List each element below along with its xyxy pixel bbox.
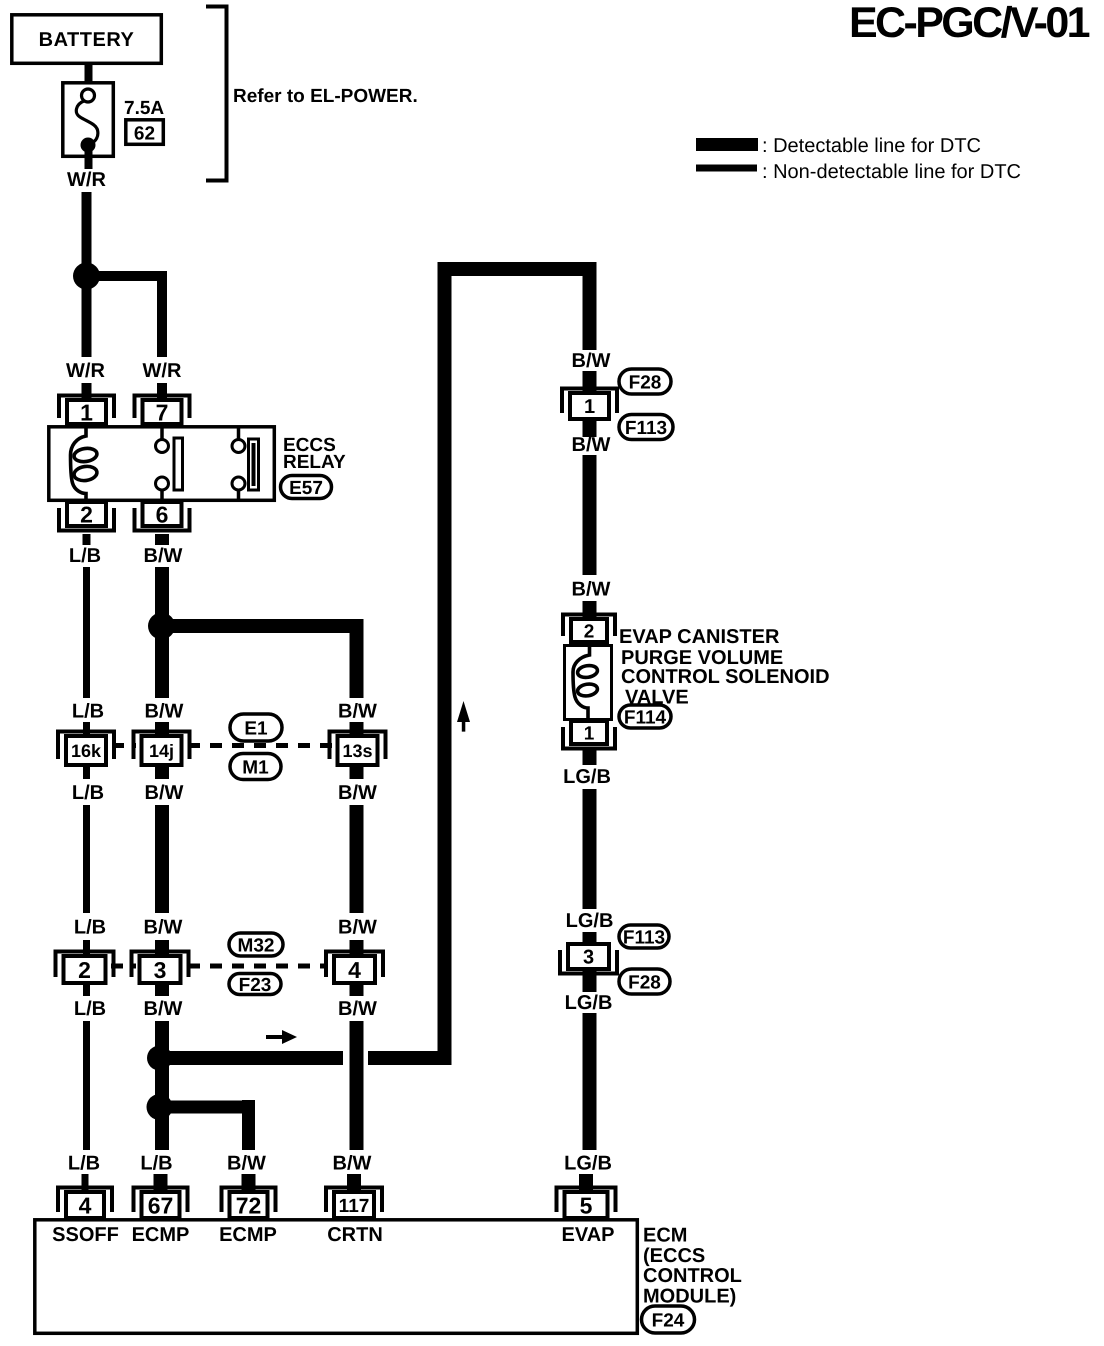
svg-text:B/W: B/W: [338, 998, 377, 1020]
svg-text:EVAP: EVAP: [562, 1224, 615, 1246]
svg-text:SSOFF: SSOFF: [52, 1224, 119, 1246]
svg-text:Refer to EL-POWER.: Refer to EL-POWER.: [233, 86, 418, 107]
svg-text:B/W: B/W: [145, 701, 184, 723]
svg-text:RELAY: RELAY: [283, 452, 346, 473]
svg-text:CRTN: CRTN: [327, 1224, 383, 1246]
svg-text:EC-PGC/V-01: EC-PGC/V-01: [849, 0, 1090, 47]
svg-text:L/B: L/B: [140, 1153, 172, 1175]
svg-text:F28: F28: [629, 372, 662, 393]
svg-text:13s: 13s: [342, 741, 372, 761]
svg-text:W/R: W/R: [143, 360, 182, 382]
svg-text:L/B: L/B: [72, 782, 104, 804]
svg-text:6: 6: [156, 501, 169, 527]
svg-text:1: 1: [584, 723, 595, 744]
svg-text:LG/B: LG/B: [565, 992, 613, 1014]
svg-text:B/W: B/W: [144, 917, 183, 939]
svg-text:B/W: B/W: [145, 782, 184, 804]
svg-text:F23: F23: [239, 975, 272, 996]
svg-text:L/B: L/B: [74, 917, 106, 939]
svg-text:LG/B: LG/B: [566, 910, 614, 932]
svg-text:L/B: L/B: [69, 545, 101, 567]
svg-text:B/W: B/W: [144, 998, 183, 1020]
svg-text:: Non-detectable line for DTC: : Non-detectable line for DTC: [762, 161, 1021, 183]
svg-text:EVAP CANISTER: EVAP CANISTER: [619, 626, 780, 648]
svg-text:MODULE): MODULE): [643, 1286, 736, 1308]
svg-text:: Detectable line for DTC: : Detectable line for DTC: [762, 135, 981, 157]
svg-text:62: 62: [134, 124, 155, 145]
svg-text:B/W: B/W: [333, 1153, 372, 1175]
svg-text:CONTROL: CONTROL: [643, 1265, 742, 1287]
svg-text:CONTROL SOLENOID: CONTROL SOLENOID: [621, 666, 830, 688]
svg-text:BATTERY: BATTERY: [39, 29, 135, 51]
svg-text:1: 1: [584, 396, 595, 418]
svg-text:3: 3: [583, 947, 594, 969]
svg-text:F113: F113: [625, 418, 667, 439]
svg-text:(ECCS: (ECCS: [643, 1245, 705, 1267]
svg-text:4: 4: [79, 1192, 92, 1218]
svg-text:67: 67: [148, 1192, 174, 1218]
svg-text:2: 2: [78, 957, 91, 983]
svg-text:117: 117: [339, 1196, 370, 1217]
svg-text:L/B: L/B: [68, 1153, 100, 1175]
svg-text:B/W: B/W: [572, 434, 611, 456]
svg-text:4: 4: [348, 957, 361, 983]
svg-text:F24: F24: [652, 1310, 685, 1331]
svg-text:ECM: ECM: [643, 1225, 687, 1247]
svg-text:7: 7: [156, 399, 169, 425]
svg-text:B/W: B/W: [227, 1153, 266, 1175]
svg-text:F28: F28: [628, 972, 661, 993]
svg-text:L/B: L/B: [72, 701, 104, 723]
svg-text:LG/B: LG/B: [563, 766, 611, 788]
svg-text:L/B: L/B: [74, 998, 106, 1020]
svg-text:14j: 14j: [149, 741, 174, 761]
svg-text:B/W: B/W: [338, 782, 377, 804]
svg-text:B/W: B/W: [572, 350, 611, 372]
svg-text:2: 2: [80, 501, 93, 527]
svg-text:B/W: B/W: [338, 701, 377, 723]
svg-text:3: 3: [154, 957, 167, 983]
svg-text:B/W: B/W: [338, 917, 377, 939]
svg-text:ECMP: ECMP: [219, 1224, 277, 1246]
svg-text:2: 2: [584, 621, 595, 642]
svg-text:72: 72: [236, 1192, 262, 1218]
svg-text:LG/B: LG/B: [564, 1153, 612, 1175]
svg-text:7.5A: 7.5A: [124, 98, 164, 119]
svg-text:5: 5: [580, 1192, 593, 1218]
svg-text:16k: 16k: [71, 741, 102, 761]
svg-text:M1: M1: [242, 757, 269, 778]
svg-text:W/R: W/R: [67, 169, 106, 191]
svg-text:M32: M32: [238, 935, 275, 956]
svg-text:1: 1: [80, 399, 93, 425]
svg-text:W/R: W/R: [66, 360, 105, 382]
svg-text:F114: F114: [624, 707, 667, 728]
svg-text:F113: F113: [623, 927, 665, 948]
svg-text:ECMP: ECMP: [132, 1224, 190, 1246]
svg-text:B/W: B/W: [144, 545, 183, 567]
svg-text:E1: E1: [244, 718, 268, 739]
svg-text:E57: E57: [289, 478, 323, 499]
svg-text:B/W: B/W: [572, 579, 611, 601]
